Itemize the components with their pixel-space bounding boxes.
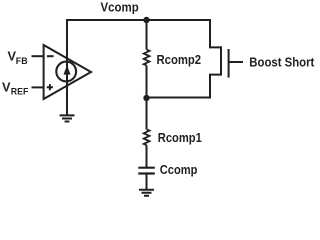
node junction dot (Rcomp2 / Rcomp1 / switch) xyxy=(143,95,149,101)
svg-text:V: V xyxy=(2,80,11,94)
op-amp minus input symbol xyxy=(47,55,54,57)
capacitor Ccomp top plate xyxy=(138,167,155,169)
wire amplifier output vertical (top rail down to ground) xyxy=(66,20,68,115)
wire top rail to Rcomp2 xyxy=(146,20,148,50)
MOSFET gate lead xyxy=(229,61,243,63)
MOSFET channel line xyxy=(220,46,222,75)
MOSFET gate bar xyxy=(228,49,230,78)
svg-text:Boost Short: Boost Short xyxy=(249,54,315,69)
wire Ccomp to ground xyxy=(146,174,148,190)
resistor Rcomp2 xyxy=(144,50,150,66)
node Vcomp junction dot xyxy=(143,17,149,23)
ground (Ccomp) xyxy=(139,190,154,196)
ground (amplifier) xyxy=(60,115,75,121)
svg-text:Rcomp2: Rcomp2 xyxy=(157,53,202,67)
svg-text:Ccomp: Ccomp xyxy=(160,163,198,177)
wire Rcomp2 to junction xyxy=(146,65,148,98)
MOSFET source wire to junction xyxy=(147,75,222,98)
wire VFB input lead xyxy=(32,55,44,57)
wire junction to Rcomp1 xyxy=(146,98,148,129)
svg-text:Vcomp: Vcomp xyxy=(101,0,139,14)
op-amp error amplifier (gm stage) triangle xyxy=(44,45,91,99)
op-amp plus input symbol xyxy=(47,84,53,90)
MOSFET drain wire from top rail xyxy=(210,19,221,47)
capacitor Ccomp bottom plate xyxy=(138,172,155,174)
svg-text:REF: REF xyxy=(11,87,29,98)
svg-text:Rcomp1: Rcomp1 xyxy=(158,131,202,145)
wire Rcomp1 to Ccomp xyxy=(146,145,148,168)
wire Vcomp top rail xyxy=(66,19,210,21)
svg-text:FB: FB xyxy=(16,56,28,67)
current source arrow head xyxy=(64,65,71,75)
wire VREF input lead xyxy=(32,86,44,88)
resistor Rcomp1 xyxy=(144,129,150,145)
current source circle inside amplifier xyxy=(56,62,76,82)
